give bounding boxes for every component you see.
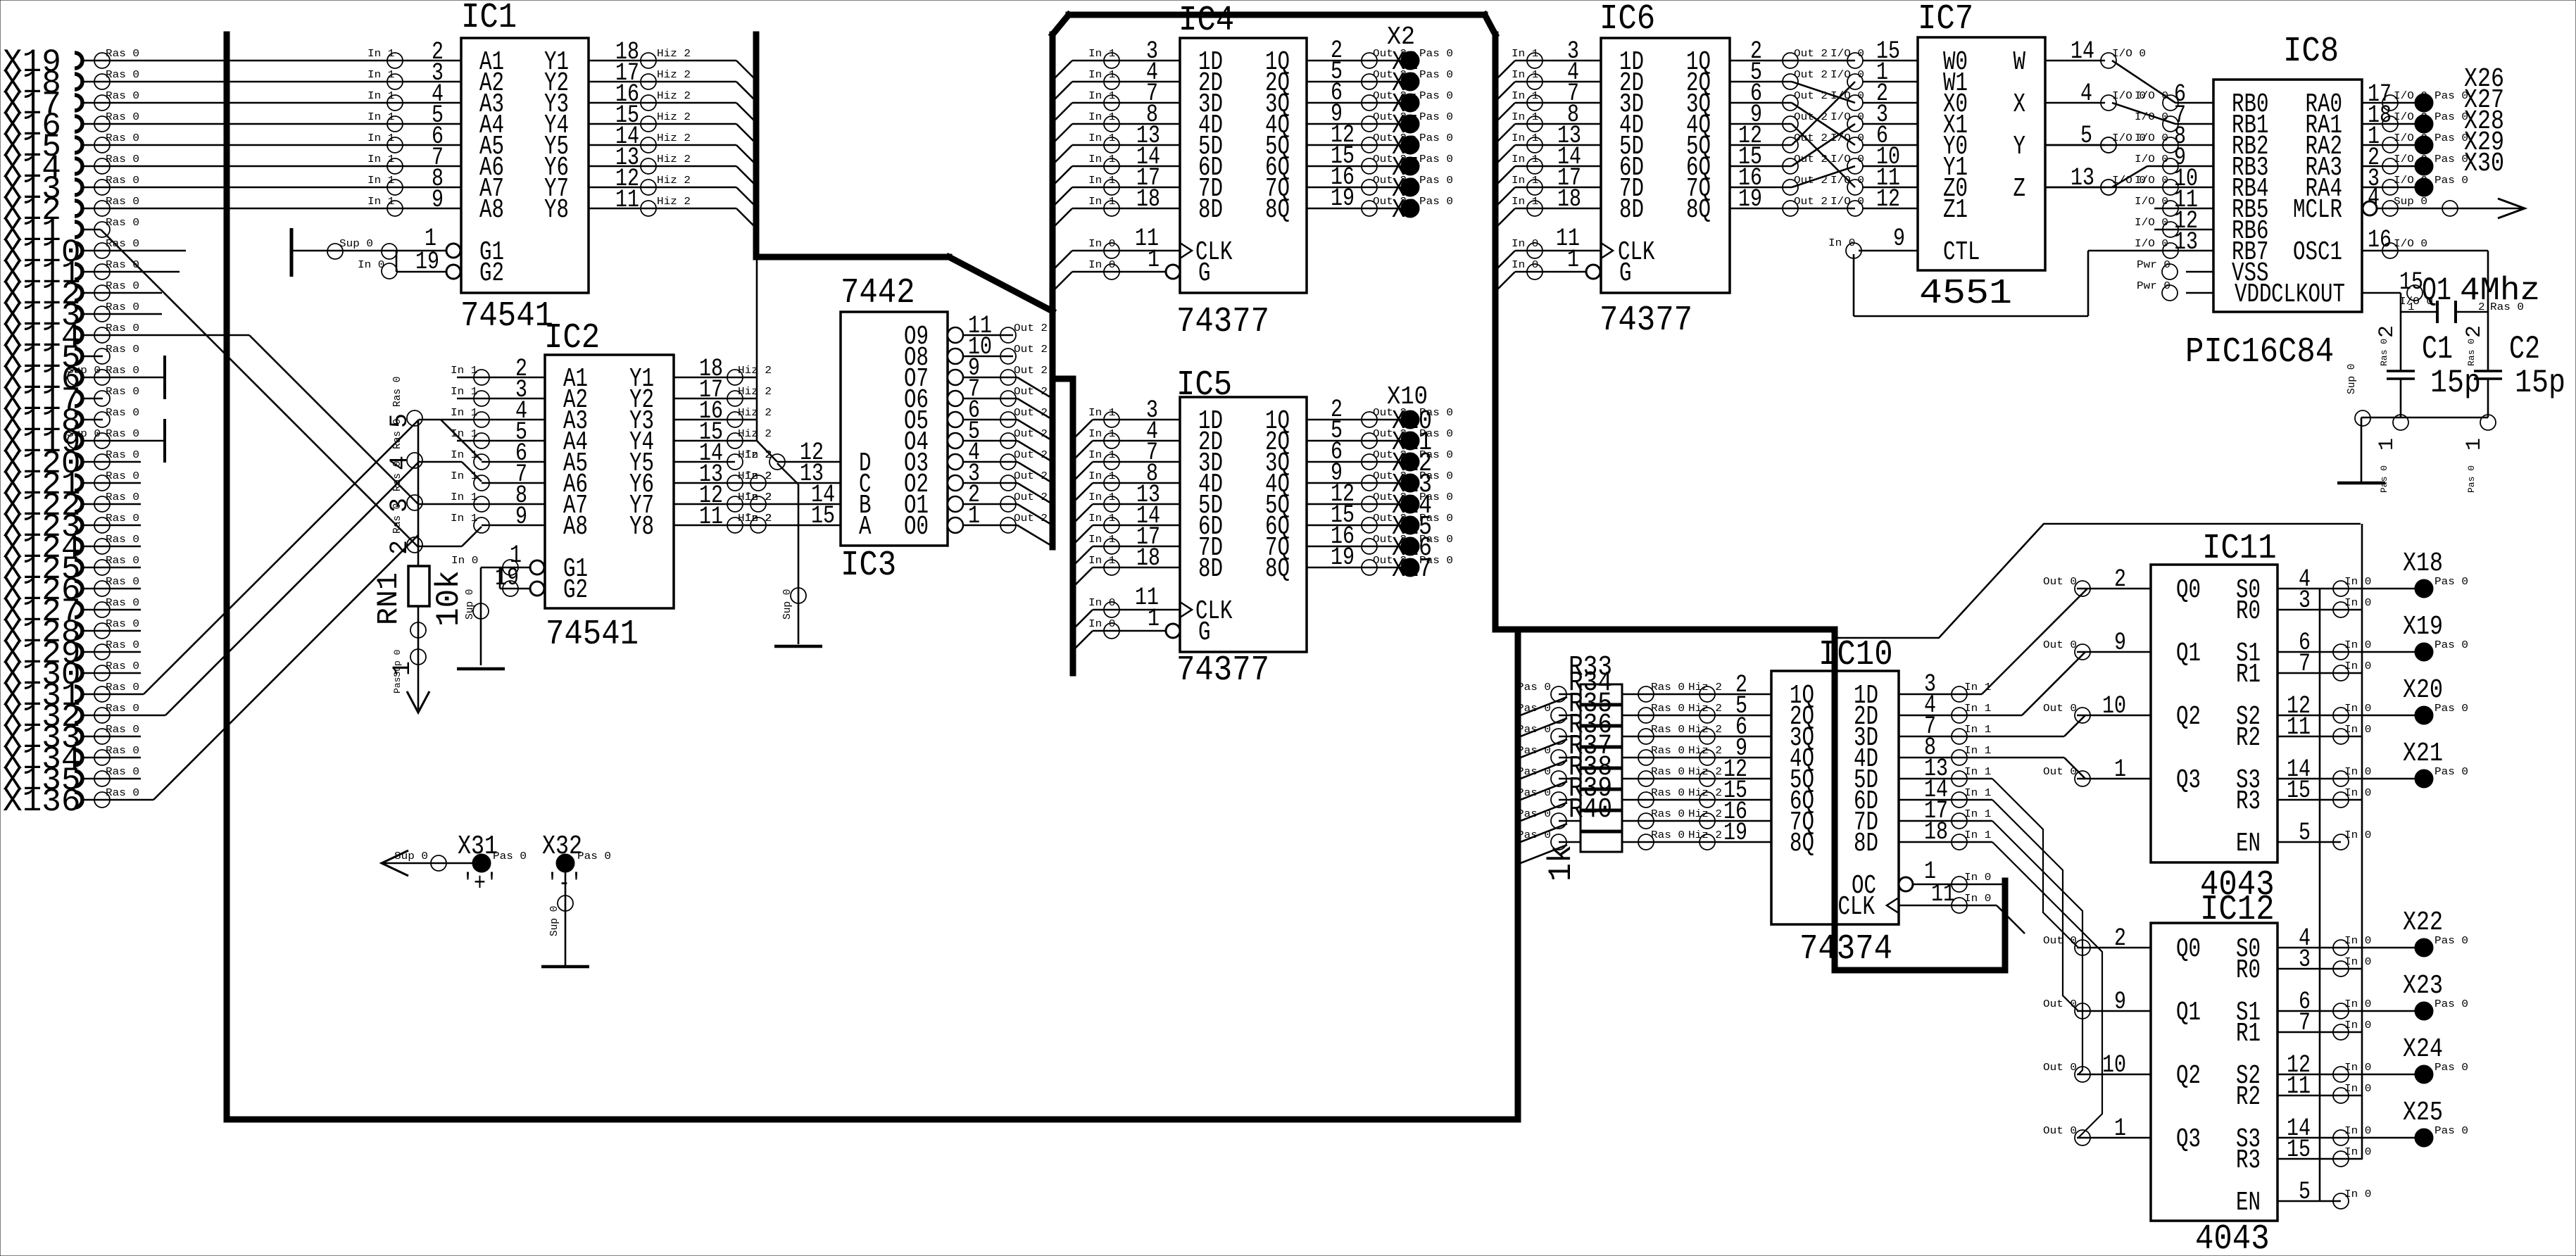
svg-text:Hiz 2: Hiz 2: [1688, 703, 1722, 715]
svg-text:19: 19: [1331, 184, 1355, 213]
svg-text:Pas 0: Pas 0: [2434, 1062, 2468, 1074]
svg-text:Pas 0: Pas 0: [1419, 70, 1453, 81]
svg-text:G2: G2: [563, 575, 588, 605]
svg-text:In 0: In 0: [358, 260, 384, 271]
svg-text:EN: EN: [2236, 1188, 2261, 1218]
svg-text:4551: 4551: [1919, 274, 2012, 314]
svg-text:Hiz 2: Hiz 2: [657, 70, 691, 81]
svg-text:19: 19: [495, 564, 519, 592]
svg-text:2: 2: [2114, 565, 2126, 594]
svg-text:74374: 74374: [1799, 929, 1892, 969]
svg-text:In 0: In 0: [2344, 830, 2371, 841]
svg-text:X23: X23: [2403, 971, 2443, 1001]
svg-text:18: 18: [1557, 185, 1581, 213]
svg-text:Pas 0: Pas 0: [1419, 471, 1453, 482]
svg-text:X22: X22: [2403, 908, 2443, 938]
svg-text:Sup 0: Sup 0: [339, 239, 373, 250]
svg-text:9: 9: [2114, 988, 2126, 1016]
svg-text:Pas 0: Pas 0: [2434, 577, 2468, 588]
svg-text:Hiz 2: Hiz 2: [1688, 746, 1722, 757]
svg-text:CTL: CTL: [1943, 237, 1980, 268]
svg-text:19: 19: [1723, 819, 1747, 847]
svg-text:IC5: IC5: [1176, 365, 1232, 406]
svg-text:W: W: [2013, 47, 2026, 77]
svg-text:Pas 0: Pas 0: [1517, 830, 1551, 841]
svg-text:In 1: In 1: [1964, 724, 1991, 736]
svg-text:Pas 0: Pas 0: [2434, 91, 2468, 102]
svg-text:Hiz 2: Hiz 2: [657, 196, 691, 208]
svg-text:In 1: In 1: [1088, 492, 1115, 503]
svg-text:Pas 0: Pas 0: [1419, 429, 1453, 440]
svg-text:Pas 0: Pas 0: [2434, 936, 2468, 947]
svg-text:Z: Z: [2013, 174, 2026, 204]
svg-text:Ras 0: Ras 0: [106, 281, 139, 292]
svg-text:Y8: Y8: [629, 512, 654, 542]
svg-text:Ras 0: Ras 0: [106, 788, 139, 799]
svg-text:Ras 0: Ras 0: [106, 365, 139, 377]
svg-text:In 1: In 1: [1088, 196, 1115, 208]
svg-text:IC7: IC7: [1918, 0, 1973, 39]
svg-text:Hiz 2: Hiz 2: [1688, 767, 1722, 778]
svg-text:Pas 0: Pas 0: [1517, 724, 1551, 736]
svg-text:Pas 0: Pas 0: [1517, 809, 1551, 820]
svg-text:Q3: Q3: [2176, 1124, 2201, 1155]
svg-text:R40: R40: [1569, 794, 1612, 826]
svg-text:Ras 0: Ras 0: [106, 175, 139, 187]
svg-text:In 1: In 1: [1088, 91, 1115, 102]
svg-text:Pas 0: Pas 0: [2379, 465, 2389, 493]
svg-text:R3: R3: [2236, 786, 2261, 817]
svg-text:IC1: IC1: [461, 0, 517, 38]
svg-text:Z1: Z1: [1943, 195, 1968, 225]
svg-text:In 1: In 1: [1964, 788, 1991, 799]
svg-text:74541: 74541: [460, 296, 553, 337]
svg-text:4043: 4043: [2195, 1219, 2270, 1256]
svg-text:In 1: In 1: [367, 133, 394, 144]
svg-text:In 1: In 1: [1512, 175, 1538, 187]
svg-text:1: 1: [2114, 1114, 2126, 1143]
svg-text:In 0: In 0: [1088, 239, 1115, 250]
svg-text:In 0: In 0: [1828, 238, 1855, 249]
svg-text:Ras 0: Ras 0: [106, 196, 139, 208]
svg-text:In 0: In 0: [1088, 598, 1115, 609]
svg-text:Pas 0: Pas 0: [2434, 175, 2468, 187]
svg-text:4: 4: [2080, 80, 2092, 108]
svg-text:In 1: In 1: [1088, 112, 1115, 123]
svg-text:X21: X21: [2403, 739, 2443, 769]
svg-text:Hiz 2: Hiz 2: [1688, 830, 1722, 841]
svg-text:74377: 74377: [1600, 301, 1692, 341]
svg-text:Out 0: Out 0: [2043, 703, 2077, 715]
svg-text:IC4: IC4: [1179, 1, 1234, 41]
svg-text:74377: 74377: [1176, 302, 1269, 342]
svg-text:Ras 0: Ras 0: [106, 471, 139, 482]
svg-text:3: 3: [2299, 586, 2311, 615]
svg-text:G2: G2: [479, 258, 504, 289]
svg-text:In 1: In 1: [1088, 534, 1115, 546]
svg-text:VDD: VDD: [2235, 280, 2272, 310]
svg-text:8Q: 8Q: [1265, 554, 1290, 584]
svg-text:2: 2: [2114, 924, 2126, 953]
svg-text:Ras 0: Ras 0: [392, 503, 403, 534]
svg-text:In 1: In 1: [367, 196, 394, 208]
svg-text:X18: X18: [2403, 548, 2443, 579]
svg-text:11: 11: [2287, 1072, 2311, 1100]
svg-text:In 0: In 0: [2344, 767, 2371, 778]
svg-text:18: 18: [1136, 544, 1160, 572]
svg-text:In 1: In 1: [367, 91, 394, 102]
svg-text:R2: R2: [2236, 723, 2261, 753]
svg-text:In 0: In 0: [2344, 703, 2371, 715]
svg-text:15: 15: [2287, 1136, 2311, 1164]
svg-text:R0: R0: [2236, 596, 2261, 627]
svg-text:In 0: In 0: [2344, 1147, 2371, 1158]
svg-text:8D: 8D: [1198, 195, 1223, 225]
svg-text:I/O 0: I/O 0: [2112, 49, 2146, 60]
svg-text:IC6: IC6: [1600, 0, 1655, 39]
svg-text:Ras 0: Ras 0: [106, 598, 139, 609]
svg-text:Ras 0: Ras 0: [106, 513, 139, 525]
svg-text:Out 0: Out 0: [2043, 577, 2077, 588]
svg-text:MCLR: MCLR: [2293, 195, 2342, 225]
svg-text:Pas 0: Pas 0: [1517, 682, 1551, 693]
svg-text:Ras 0: Ras 0: [106, 260, 139, 271]
svg-text:5: 5: [2299, 1178, 2311, 1206]
svg-text:C1: C1: [2422, 331, 2453, 368]
svg-text:In 1: In 1: [1088, 513, 1115, 525]
svg-text:Out 0: Out 0: [2043, 1126, 2077, 1137]
svg-text:Hiz 2: Hiz 2: [738, 429, 772, 440]
svg-text:In 0: In 0: [2344, 577, 2371, 588]
svg-text:11: 11: [615, 186, 639, 214]
svg-text:In 0: In 0: [1512, 239, 1538, 250]
svg-text:'+': '+': [462, 869, 498, 898]
svg-text:G: G: [1198, 258, 1211, 289]
svg-text:R1: R1: [2236, 1019, 2261, 1049]
svg-text:Hiz 2: Hiz 2: [738, 408, 772, 419]
svg-text:I/O 0: I/O 0: [2135, 239, 2168, 250]
svg-text:Ras 0: Ras 0: [106, 154, 139, 165]
svg-text:I/O 0: I/O 0: [2135, 154, 2168, 165]
svg-text:In 1: In 1: [367, 175, 394, 187]
svg-text:Pas 0: Pas 0: [577, 851, 611, 862]
svg-text:Out 0: Out 0: [2043, 1062, 2077, 1074]
svg-text:Ras 0: Ras 0: [1651, 724, 1685, 736]
svg-text:In 1: In 1: [451, 408, 477, 419]
svg-text:In 1: In 1: [367, 70, 394, 81]
svg-text:EN: EN: [2236, 829, 2261, 859]
svg-text:Hiz 2: Hiz 2: [657, 112, 691, 123]
svg-text:In 0: In 0: [2344, 661, 2371, 672]
svg-text:Hiz 2: Hiz 2: [1688, 682, 1722, 693]
svg-text:I/O 0: I/O 0: [2135, 218, 2168, 229]
svg-text:2: 2: [2463, 325, 2487, 338]
svg-text:In 1: In 1: [1512, 196, 1538, 208]
svg-text:Ras 0: Ras 0: [1651, 830, 1685, 841]
svg-text:19: 19: [1331, 544, 1355, 572]
svg-text:I/O 0: I/O 0: [2135, 91, 2168, 102]
svg-text:In 2: In 2: [745, 513, 772, 525]
svg-text:Q0: Q0: [2176, 575, 2201, 605]
svg-text:Sup 0: Sup 0: [2394, 196, 2427, 208]
svg-text:1: 1: [2408, 302, 2415, 313]
svg-text:In 1: In 1: [1088, 154, 1115, 165]
svg-text:2: 2: [2375, 325, 2399, 338]
svg-text:Ras 0: Ras 0: [392, 418, 403, 449]
svg-text:Pas 0: Pas 0: [1419, 112, 1453, 123]
svg-text:RN1: RN1: [372, 572, 406, 625]
svg-text:In 1: In 1: [1512, 70, 1538, 81]
svg-text:X19: X19: [2403, 612, 2443, 642]
svg-text:In 1: In 1: [1088, 471, 1115, 482]
svg-text:C2: C2: [2509, 331, 2540, 368]
svg-text:13: 13: [2174, 228, 2198, 256]
svg-text:1k: 1k: [1543, 845, 1580, 881]
svg-text:Pas 0: Pas 0: [1419, 91, 1453, 102]
svg-text:X136: X136: [3, 784, 80, 820]
svg-text:In 2: In 2: [745, 492, 772, 503]
svg-text:In 1: In 1: [1088, 429, 1115, 440]
svg-text:Ras 0: Ras 0: [106, 408, 139, 419]
svg-text:In 2: In 2: [745, 450, 772, 461]
svg-text:Ras 0: Ras 0: [1651, 682, 1685, 693]
svg-text:Pas 0: Pas 0: [1419, 492, 1453, 503]
svg-text:In 1: In 1: [1964, 767, 1991, 778]
svg-text:8Q: 8Q: [1265, 195, 1290, 225]
svg-text:Pas 0: Pas 0: [2434, 154, 2468, 165]
svg-text:X2: X2: [1387, 23, 1415, 51]
svg-text:Ras 0: Ras 0: [106, 661, 139, 672]
svg-text:11: 11: [699, 503, 723, 531]
svg-text:Hiz 2: Hiz 2: [657, 91, 691, 102]
svg-text:Ras 0: Ras 0: [106, 492, 139, 503]
svg-text:12: 12: [1876, 185, 1900, 213]
svg-text:Out 2: Out 2: [1014, 450, 1048, 461]
svg-text:Ras 0: Ras 0: [106, 703, 139, 715]
svg-text:Hiz 2: Hiz 2: [1688, 809, 1722, 820]
svg-text:7: 7: [2299, 1009, 2311, 1037]
svg-text:In 0: In 0: [2344, 1020, 2371, 1031]
svg-text:R1: R1: [2236, 660, 2261, 690]
svg-text:In 1: In 1: [367, 49, 394, 60]
svg-text:In 0: In 0: [1088, 619, 1115, 630]
svg-text:2: 2: [2478, 302, 2485, 313]
svg-text:10k: 10k: [431, 570, 467, 627]
svg-text:IC2: IC2: [544, 318, 600, 358]
svg-text:X10: X10: [1387, 382, 1428, 411]
svg-text:Pas 0: Pas 0: [493, 851, 527, 862]
svg-text:Q1: Q1: [2176, 639, 2201, 669]
svg-text:1: 1: [1148, 605, 1160, 633]
svg-text:In 1: In 1: [1964, 703, 1991, 715]
svg-text:9: 9: [2114, 629, 2126, 657]
svg-text:Q1: Q1: [2422, 272, 2451, 309]
svg-text:Ras 0: Ras 0: [106, 534, 139, 546]
svg-text:1: 1: [2375, 438, 2399, 451]
svg-text:IC3: IC3: [841, 546, 896, 586]
svg-text:3: 3: [2299, 946, 2311, 974]
svg-text:In 1: In 1: [367, 112, 394, 123]
svg-text:A8: A8: [479, 195, 504, 225]
svg-text:Ras 0: Ras 0: [106, 70, 139, 81]
svg-text:Ras 0: Ras 0: [392, 376, 403, 407]
svg-text:Out 0: Out 0: [2043, 767, 2077, 778]
svg-text:In 0: In 0: [1964, 872, 1991, 884]
svg-text:Pas 0: Pas 0: [1419, 154, 1453, 165]
svg-text:Ras 0: Ras 0: [1651, 746, 1685, 757]
svg-text:Hiz 2: Hiz 2: [1688, 724, 1722, 736]
svg-text:I/O 0: I/O 0: [2135, 112, 2168, 123]
svg-text:Out 2: Out 2: [1014, 323, 1048, 334]
svg-text:Sup 0: Sup 0: [782, 589, 793, 620]
svg-text:In 0: In 0: [2344, 1126, 2371, 1137]
svg-text:X24: X24: [2403, 1034, 2443, 1065]
svg-text:Pas 0: Pas 0: [2434, 999, 2468, 1010]
svg-text:Pas 0: Pas 0: [1517, 703, 1551, 715]
svg-text:Pas 0: Pas 0: [1419, 196, 1453, 208]
svg-text:Hiz 2: Hiz 2: [657, 133, 691, 144]
svg-text:In 0: In 0: [451, 555, 478, 567]
svg-text:10: 10: [2102, 692, 2126, 720]
svg-text:Sup 0: Sup 0: [394, 851, 428, 862]
svg-text:Ras 0: Ras 0: [106, 450, 139, 461]
svg-text:Ras 0: Ras 0: [106, 133, 139, 144]
svg-text:In 0: In 0: [2344, 957, 2371, 968]
svg-text:I/O 0: I/O 0: [2135, 196, 2168, 208]
svg-text:Out 2: Out 2: [1014, 471, 1048, 482]
svg-text:In 1: In 1: [451, 365, 477, 377]
svg-text:Pas 0: Pas 0: [1517, 788, 1551, 799]
svg-text:Out 2: Out 2: [1014, 365, 1048, 377]
svg-text:In 0: In 0: [2344, 999, 2371, 1010]
svg-text:R3: R3: [2236, 1145, 2261, 1176]
svg-text:Ras 0: Ras 0: [106, 555, 139, 567]
svg-text:R2: R2: [2236, 1082, 2261, 1112]
svg-text:IC12: IC12: [2200, 890, 2275, 930]
svg-text:4: 4: [2368, 184, 2380, 212]
svg-text:A8: A8: [563, 512, 588, 542]
svg-text:7442: 7442: [841, 273, 915, 313]
svg-text:In 1: In 1: [1512, 91, 1538, 102]
svg-text:In 0: In 0: [2344, 640, 2371, 651]
svg-text:15: 15: [811, 502, 835, 530]
svg-text:8D: 8D: [1854, 829, 1878, 859]
svg-text:Pas 0: Pas 0: [1419, 450, 1453, 461]
svg-text:Out 2: Out 2: [1014, 408, 1048, 419]
svg-text:In 0: In 0: [2344, 1062, 2371, 1074]
svg-text:X: X: [2013, 89, 2026, 120]
svg-text:Ras 0: Ras 0: [2466, 339, 2477, 366]
svg-text:In 1: In 1: [367, 154, 394, 165]
svg-text:CLK: CLK: [1838, 892, 1876, 922]
svg-text:X30: X30: [2464, 149, 2504, 179]
svg-text:8Q: 8Q: [1686, 195, 1711, 225]
svg-text:In 0: In 0: [1512, 260, 1538, 271]
svg-text:Out 2: Out 2: [1014, 513, 1048, 525]
svg-text:Pas 0: Pas 0: [1419, 49, 1453, 60]
svg-text:15p: 15p: [2515, 365, 2565, 401]
svg-text:15p: 15p: [2430, 365, 2481, 401]
svg-text:Out 2: Out 2: [1794, 196, 1828, 208]
svg-text:Y: Y: [2013, 132, 2026, 162]
svg-text:A: A: [859, 512, 872, 542]
svg-text:Out 2: Out 2: [1014, 387, 1048, 398]
svg-text:Y8: Y8: [544, 195, 569, 225]
svg-text:Pas 0: Pas 0: [2434, 112, 2468, 123]
svg-text:Pas 0: Pas 0: [1517, 767, 1551, 778]
svg-text:9: 9: [1893, 225, 1905, 253]
svg-text:IC8: IC8: [2283, 32, 2339, 72]
svg-text:G: G: [1198, 617, 1211, 648]
svg-text:Q2: Q2: [2176, 702, 2201, 732]
svg-text:R0: R0: [2236, 955, 2261, 986]
svg-text:In 1: In 1: [1512, 112, 1538, 123]
svg-text:15: 15: [2399, 268, 2423, 296]
svg-text:Ras 0: Ras 0: [106, 323, 139, 334]
svg-text:Ras 0: Ras 0: [106, 429, 139, 440]
svg-text:Out 0: Out 0: [2043, 640, 2077, 651]
svg-text:IC10: IC10: [1818, 635, 1893, 675]
svg-text:14: 14: [2071, 37, 2094, 65]
svg-text:7: 7: [2299, 650, 2311, 678]
svg-text:I/O 0: I/O 0: [2135, 175, 2168, 187]
svg-text:Ras 0: Ras 0: [106, 640, 139, 651]
svg-text:Q2: Q2: [2176, 1061, 2201, 1091]
svg-text:1: 1: [1148, 246, 1160, 274]
svg-text:In 1: In 1: [1512, 49, 1538, 60]
svg-text:10: 10: [2102, 1051, 2126, 1079]
svg-text:Out 2: Out 2: [1794, 70, 1828, 81]
svg-text:In 1: In 1: [1964, 746, 1991, 757]
svg-text:Pas 0: Pas 0: [1517, 746, 1551, 757]
svg-text:Pas 0: Pas 0: [2434, 640, 2468, 651]
svg-text:Ras 0: Ras 0: [1651, 703, 1685, 715]
svg-text:Sup 0: Sup 0: [2346, 363, 2358, 394]
svg-text:PasSup 0: PasSup 0: [392, 650, 403, 693]
svg-text:In 2: In 2: [745, 471, 772, 482]
svg-text:Out 2: Out 2: [1014, 344, 1048, 356]
svg-text:Sup 0: Sup 0: [549, 905, 560, 936]
svg-text:PIC16C84: PIC16C84: [2185, 332, 2334, 372]
svg-text:In 0: In 0: [2344, 598, 2371, 609]
svg-text:1: 1: [2463, 438, 2487, 451]
svg-text:In 0: In 0: [1964, 893, 1991, 905]
svg-text:Pas 0: Pas 0: [1419, 133, 1453, 144]
svg-text:I/O 0: I/O 0: [2394, 239, 2427, 250]
svg-text:In 1: In 1: [1964, 830, 1991, 841]
svg-text:Q3: Q3: [2176, 765, 2201, 796]
svg-text:X20: X20: [2403, 675, 2443, 705]
svg-text:Hiz 2: Hiz 2: [1688, 788, 1722, 799]
svg-text:16: 16: [2368, 226, 2392, 254]
svg-text:5: 5: [2299, 819, 2311, 847]
svg-text:CLKOUT: CLKOUT: [2271, 280, 2345, 310]
svg-text:Out 2: Out 2: [1014, 429, 1048, 440]
svg-text:In 1: In 1: [1512, 133, 1538, 144]
svg-text:19: 19: [1738, 185, 1762, 213]
svg-text:8Q: 8Q: [1790, 829, 1814, 859]
svg-text:Ras 0: Ras 0: [106, 218, 139, 229]
svg-text:In 1: In 1: [1088, 133, 1115, 144]
svg-text:In 1: In 1: [1964, 809, 1991, 820]
svg-text:Ras 0: Ras 0: [106, 112, 139, 123]
svg-text:18: 18: [1136, 185, 1160, 213]
svg-text:9: 9: [515, 503, 527, 531]
svg-text:In 0: In 0: [2344, 1189, 2371, 1200]
svg-text:In 1: In 1: [1088, 175, 1115, 187]
svg-text:In 0: In 0: [2344, 724, 2371, 736]
svg-text:74377: 74377: [1176, 651, 1269, 691]
